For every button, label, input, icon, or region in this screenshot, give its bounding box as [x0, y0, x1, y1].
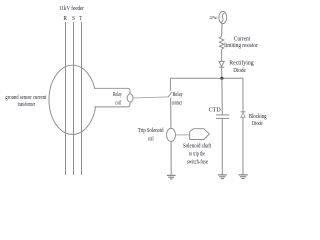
solenoid shaft (pointed pentagon) [190, 129, 210, 140]
wire: solenoid coil to ground [170, 141, 172, 175]
label: Trip Solenoid coil [138, 127, 164, 143]
wire: rail right corner down to blocking diode [242, 78, 244, 112]
wire: phase T feeder line [81, 22, 83, 175]
svg-text:Relay: Relay [113, 91, 122, 98]
wire: mechanical link from solenoid coil to shaft [176, 134, 190, 136]
svg-text:T: T [79, 15, 82, 22]
ground (below trip solenoid) [167, 175, 176, 179]
svg-text:limiting resistor: limiting resistor [224, 42, 257, 49]
diode: rectifying diode (triangle down + bar) [219, 61, 224, 66]
capacitor CTD (two plates) [216, 114, 229, 116]
svg-text:CTD: CTD [209, 108, 221, 114]
svg-text:R: R [63, 15, 67, 22]
svg-text:S: S [72, 15, 75, 22]
svg-text:coil: coil [115, 100, 121, 107]
wire: top rail [170, 77, 243, 79]
node: junction of diode and rail [220, 77, 223, 80]
relay coil (circle on box edge) [127, 94, 133, 102]
svg-text:switch-fuse: switch-fuse [187, 159, 208, 166]
svg-text:Blocking: Blocking [249, 113, 267, 120]
wire: contact to trip solenoid coil [170, 98, 172, 129]
CT secondary loop (relay coil box) [94, 88, 130, 107]
svg-text:to trip the: to trip the [189, 151, 205, 158]
label: Current limiting resistor [224, 36, 257, 50]
ground sensor current transformer core (ellipse) [49, 65, 96, 134]
svg-text:Diode: Diode [252, 120, 263, 127]
svg-text:Diode: Diode [233, 67, 246, 74]
svg-text:220Vac: 220Vac [209, 16, 217, 20]
ground (below blocking diode) [238, 175, 247, 179]
svg-text:Solenoid shaft: Solenoid shaft [183, 143, 211, 150]
trip solenoid coil (circle) [167, 128, 176, 141]
relay contact blade (NO contact) [168, 92, 172, 97]
AC source (220Vac) [219, 11, 227, 23]
svg-text:coil: coil [148, 135, 154, 142]
wire: rail down to relay contact upper terminal [169, 78, 171, 91]
label: Blocking Diode [249, 113, 267, 127]
svg-text:contact: contact [172, 99, 183, 106]
wire: mechanical link from relay coil to relay contact [133, 97, 168, 98]
wire: blocking diode to ground [242, 117, 244, 174]
diode: blocking diode (bar + triangle up) [241, 111, 246, 113]
svg-text:11kV feeder: 11kV feeder [59, 5, 84, 12]
wire: capacitor to ground [221, 118, 223, 174]
svg-text:transformer: transformer [18, 101, 35, 108]
AC source sine wave [221, 13, 224, 22]
svg-text:Relay: Relay [173, 91, 184, 98]
label: ground sensor current transformer [5, 94, 46, 108]
svg-text:ground sensor current: ground sensor current [5, 94, 46, 101]
label: Solenoid shaft to trip the switch-fuse [183, 143, 211, 166]
label: Relay contact [172, 91, 184, 106]
svg-text:Trip Solenoid: Trip Solenoid [138, 127, 164, 134]
wire: phase S feeder line [73, 22, 75, 175]
wire: resistor to rectifying diode [221, 49, 223, 61]
wire: diode to top rail [221, 67, 223, 78]
wire: rail to CTD capacitor [221, 78, 223, 115]
label: Relay coil [113, 91, 122, 107]
wire: phase R feeder line [65, 22, 67, 175]
wire: source to resistor [221, 24, 223, 37]
resistor: current limiting resistor (zigzag) [219, 36, 223, 49]
ground (below CTD capacitor) [218, 175, 227, 179]
svg-text:Rectifying: Rectifying [229, 59, 253, 66]
label: Rectifying Diode [229, 59, 253, 74]
